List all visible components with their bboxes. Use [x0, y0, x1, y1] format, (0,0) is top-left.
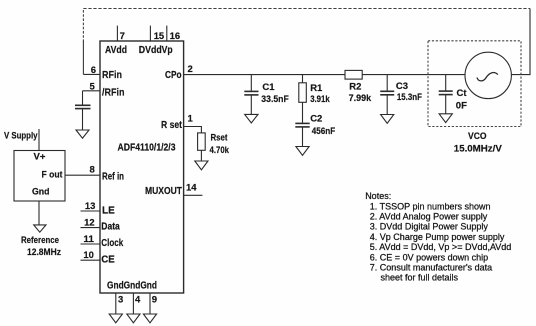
svg-text:Reference: Reference — [21, 235, 59, 246]
svg-text:V Supply: V Supply — [4, 130, 38, 141]
svg-text:CPo: CPo — [165, 70, 182, 81]
svg-text:R1: R1 — [310, 83, 323, 94]
svg-text:3. DVdd Digital Power Supply: 3. DVdd Digital Power Supply — [370, 222, 489, 232]
svg-text:Notes:: Notes: — [365, 191, 391, 201]
svg-text:/RFin: /RFin — [102, 87, 125, 98]
svg-text:13: 13 — [85, 201, 96, 212]
svg-text:3: 3 — [118, 294, 123, 305]
svg-text:RFin: RFin — [102, 70, 122, 81]
svg-text:3.91k: 3.91k — [310, 94, 330, 105]
svg-text:0F: 0F — [456, 100, 467, 111]
svg-text:ADF4110/1/2/3: ADF4110/1/2/3 — [118, 143, 176, 154]
svg-text:15.0MHz/V: 15.0MHz/V — [454, 144, 503, 155]
svg-text:12.8MHz: 12.8MHz — [27, 247, 61, 258]
svg-text:F out: F out — [42, 170, 64, 181]
svg-text:6: 6 — [91, 65, 96, 76]
svg-text:DVdd: DVdd — [139, 45, 162, 56]
svg-text:1: 1 — [188, 114, 194, 125]
svg-text:Vp: Vp — [162, 45, 173, 56]
svg-text:Rset: Rset — [211, 132, 229, 143]
svg-text:sheet for full details: sheet for full details — [381, 273, 459, 283]
svg-text:C3: C3 — [396, 81, 408, 92]
svg-text:456nF: 456nF — [312, 126, 336, 137]
svg-text:Gnd: Gnd — [32, 186, 50, 197]
svg-text:33.5nF: 33.5nF — [261, 94, 289, 105]
svg-text:7.99k: 7.99k — [349, 93, 372, 104]
svg-text:C1: C1 — [262, 82, 275, 93]
svg-text:VCO: VCO — [468, 131, 487, 142]
svg-text:14: 14 — [186, 183, 197, 194]
svg-text:11: 11 — [83, 234, 94, 245]
svg-text:9: 9 — [152, 294, 157, 305]
svg-text:Ct: Ct — [457, 88, 468, 99]
svg-text:Ref in: Ref in — [102, 172, 124, 183]
svg-text:10: 10 — [83, 250, 94, 261]
svg-text:6. CE = 0V powers down chip: 6. CE = 0V powers down chip — [370, 252, 488, 262]
svg-text:R2: R2 — [349, 81, 361, 92]
svg-text:1. TSSOP pin numbers shown: 1. TSSOP pin numbers shown — [370, 201, 491, 211]
svg-text:LE: LE — [102, 206, 115, 217]
svg-text:CE: CE — [101, 255, 115, 266]
svg-text:7: 7 — [120, 31, 125, 42]
svg-text:V+: V+ — [34, 152, 46, 163]
svg-text:4. Vp Charge Pump power supply: 4. Vp Charge Pump power supply — [370, 232, 505, 242]
svg-text:5. AVdd = DVdd, Vp >= DVdd,AV: 5. AVdd = DVdd, Vp >= DVdd,AVdd — [370, 242, 512, 252]
svg-text:15: 15 — [154, 31, 165, 42]
svg-text:8: 8 — [90, 165, 95, 176]
svg-text:5: 5 — [90, 82, 96, 93]
svg-text:GndGndGnd: GndGndGnd — [107, 280, 157, 291]
svg-text:12: 12 — [84, 218, 95, 229]
svg-text:MUXOUT: MUXOUT — [145, 186, 182, 197]
svg-text:R set: R set — [161, 120, 183, 131]
svg-text:7. Consult manufacturer's data: 7. Consult manufacturer's data — [370, 263, 492, 273]
svg-text:2: 2 — [188, 64, 193, 75]
svg-text:2. AVdd Analog Power supply: 2. AVdd Analog Power supply — [370, 212, 488, 222]
svg-text:15.3nF: 15.3nF — [397, 92, 422, 103]
svg-text:4.70k: 4.70k — [210, 145, 230, 156]
svg-text:4: 4 — [135, 294, 141, 305]
svg-text:C2: C2 — [310, 113, 322, 124]
svg-text:Clock: Clock — [101, 238, 123, 249]
svg-text:16: 16 — [170, 31, 181, 42]
svg-text:AVdd: AVdd — [105, 45, 127, 56]
svg-text:Data: Data — [101, 222, 120, 233]
